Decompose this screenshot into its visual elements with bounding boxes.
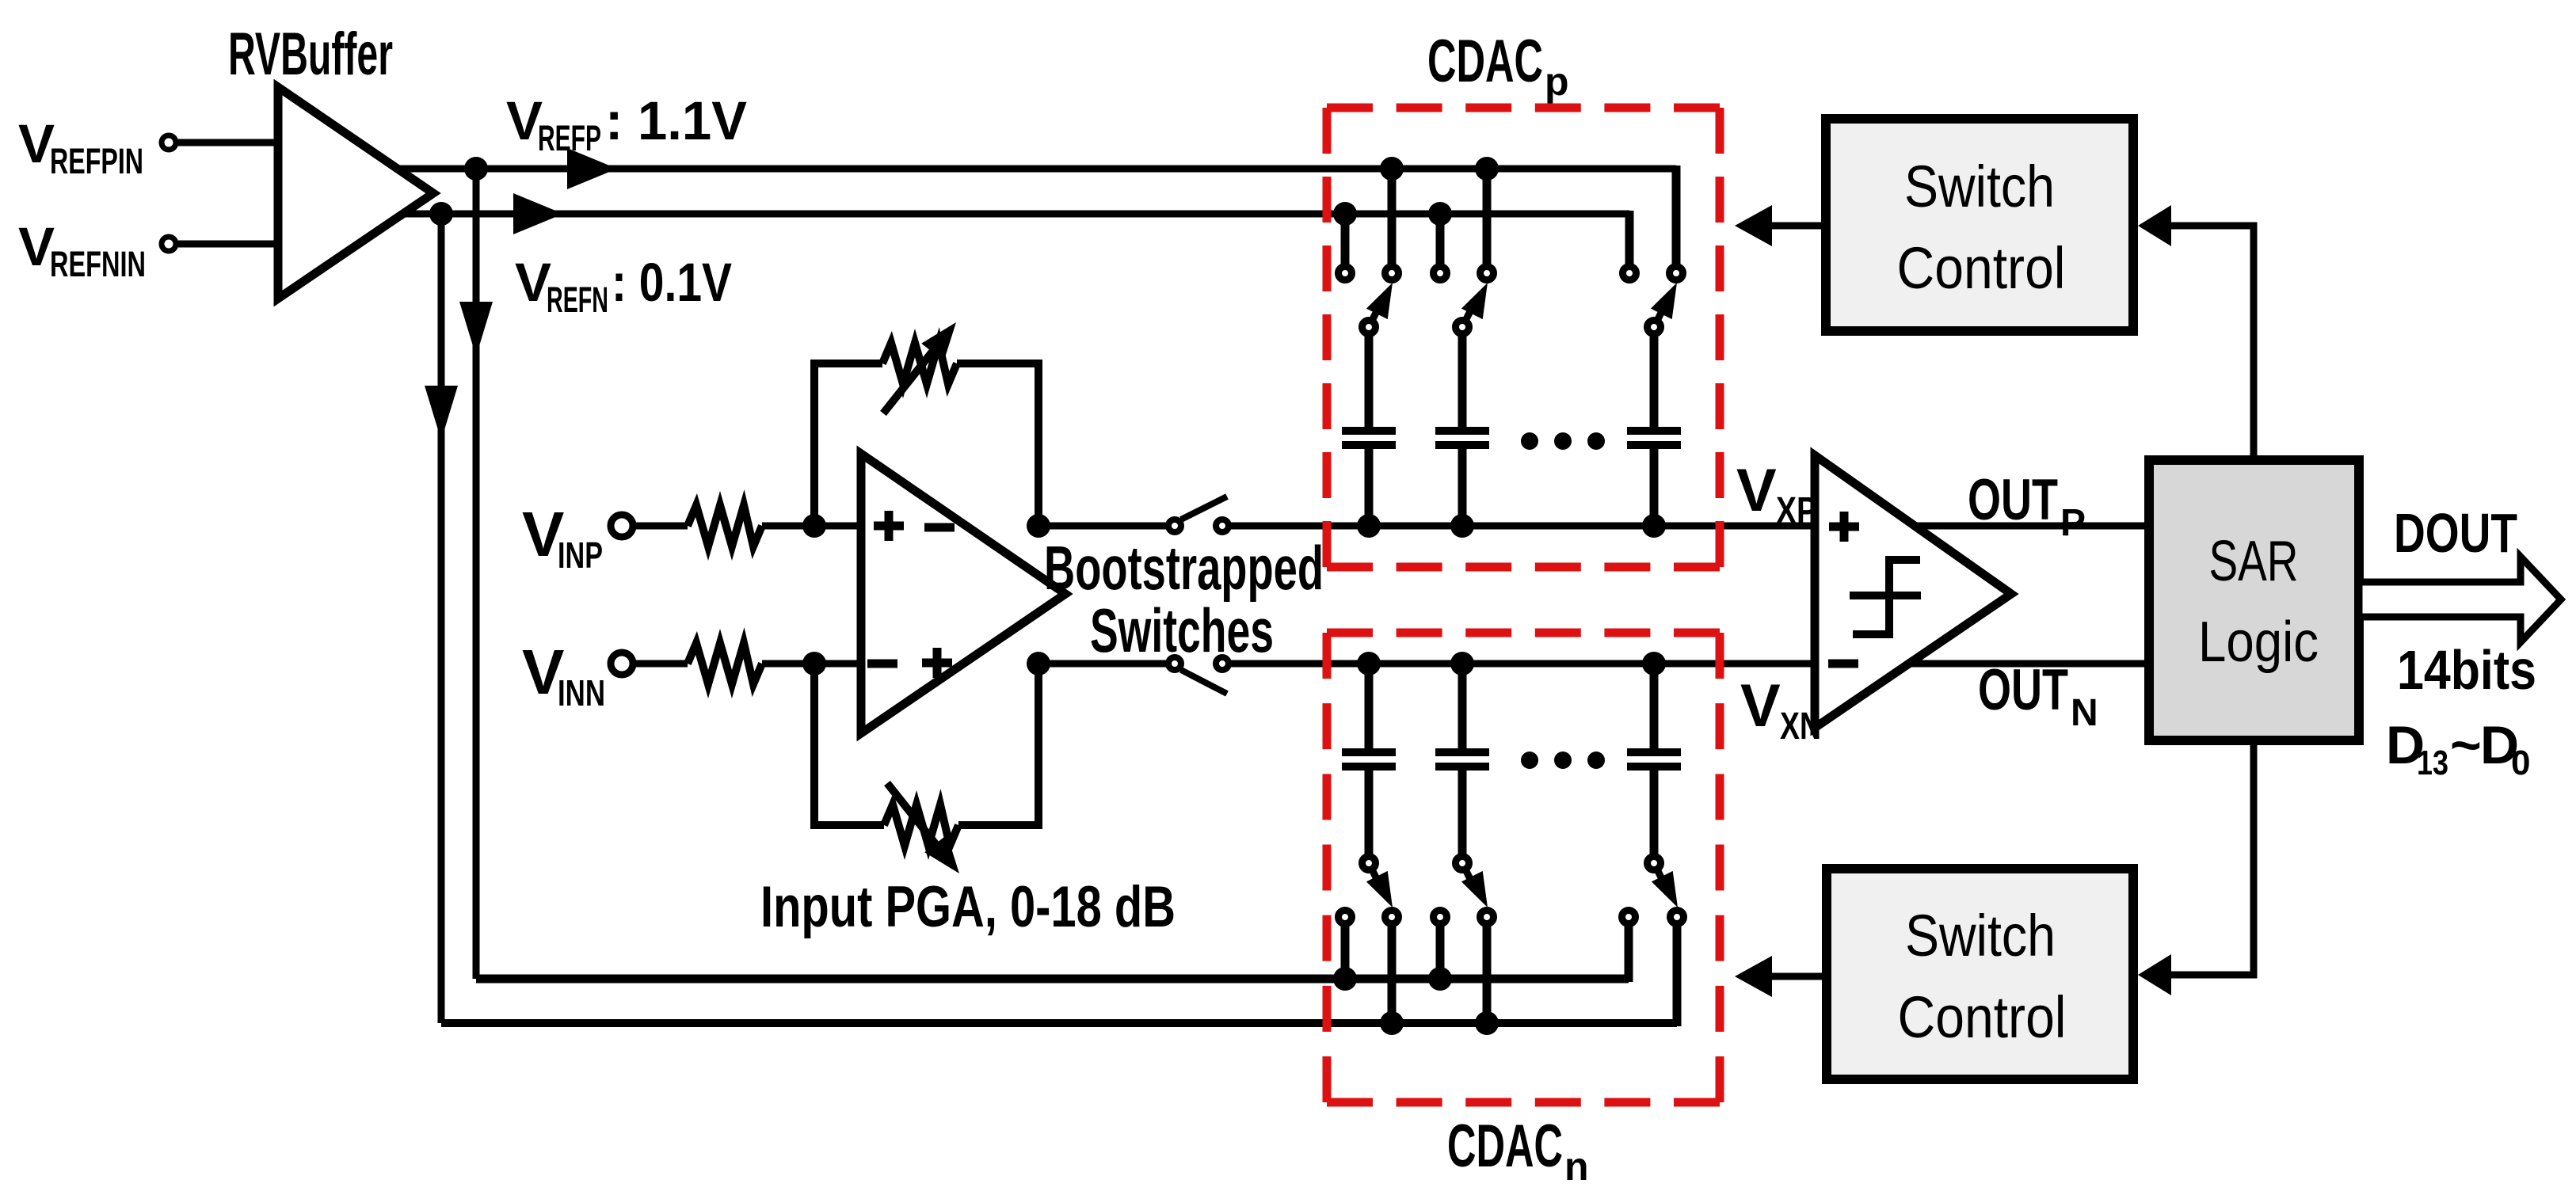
DOUT block arrow — [2359, 557, 2561, 642]
svg-text:OUT: OUT — [1978, 658, 2068, 722]
capacitor C3p — [1650, 337, 1659, 428]
terminal V_REFNIN — [162, 237, 176, 251]
wire VREFN rail top — [403, 211, 1629, 218]
wire VREFN vertical drop — [438, 214, 445, 1023]
node VREFP rail tap 2n — [1428, 967, 1452, 991]
wire PGA feedback top-right — [957, 363, 1038, 526]
wire SAR to bottom Switch Control — [2171, 740, 2254, 975]
svg-text:: 1.1V: : 1.1V — [605, 90, 747, 151]
wire PGA feedback top-left — [814, 363, 882, 526]
svg-text:n: n — [1564, 1144, 1589, 1189]
switch SW3p (CDACp bit 3) — [1625, 211, 1634, 264]
op-amp U2 (Input PGA) triangle — [861, 454, 1065, 733]
resistor R1 (V_INP input) — [688, 505, 762, 546]
svg-text:Control: Control — [1898, 984, 2067, 1050]
comparator hysteresis symbol — [1850, 592, 1921, 599]
wire bottom Switch Control to CDACn — [1772, 973, 1827, 980]
comparator U3 triangle — [1815, 455, 2011, 728]
capacitor C1n — [1365, 664, 1374, 751]
wire V_INN to resistor — [635, 660, 688, 668]
CDACn boundary (red dashed box) — [1327, 629, 1720, 637]
switch S1 (bootstrapped, VXP) — [1168, 519, 1181, 532]
svg-text:INN: INN — [558, 672, 605, 713]
node VXP cap C1p — [1357, 514, 1381, 538]
wire VXN from PGA — [1038, 660, 1166, 668]
svg-text:Switch: Switch — [1905, 903, 2056, 968]
svg-text:V: V — [1736, 457, 1777, 524]
svg-text:OUT: OUT — [1968, 468, 2058, 532]
PGA + sign (top input) — [874, 522, 904, 531]
node VREFN rail tap 2n — [1475, 1011, 1499, 1035]
svg-text:~: ~ — [2450, 715, 2482, 775]
node VREFP cap3 tap — [1475, 157, 1499, 181]
wire VREFP rail top — [398, 166, 1676, 173]
variable resistor R3 (top feedback) — [882, 343, 957, 384]
node VREFN cap1 tap — [1333, 202, 1357, 226]
wire V_INP to resistor — [635, 523, 688, 530]
arrow of variable resistor R4 — [887, 783, 943, 853]
wire PGA feedback bottom-left — [814, 664, 884, 825]
switch SW1p (CDACp bit 1) — [1341, 214, 1350, 264]
wire VREFP bottom rail — [476, 975, 1629, 984]
block SAR Logic box — [2149, 460, 2359, 740]
arrowhead into bottom Switch Control — [2138, 954, 2171, 995]
svg-text:XP: XP — [1776, 490, 1817, 532]
flow arrowhead on VREFP drop — [459, 302, 493, 356]
svg-text:14bits: 14bits — [2397, 639, 2536, 701]
node PGA - input — [802, 652, 826, 675]
PGA + sign (bottom) — [922, 659, 952, 668]
block Switch Control (top) box — [1826, 119, 2133, 331]
arrowhead into CDACp — [1735, 205, 1772, 246]
wire resistor to PGA - — [762, 660, 861, 668]
svg-text:Control: Control — [1897, 235, 2066, 301]
arrowhead into top Switch Control — [2138, 205, 2171, 246]
svg-text:DOUT: DOUT — [2394, 502, 2517, 564]
wire PGA feedback bottom-right — [958, 664, 1038, 825]
node VREFP cap2 tap — [1380, 157, 1404, 181]
svg-text:REFN: REFN — [547, 280, 608, 320]
svg-text:INP: INP — [558, 535, 603, 576]
node PGA output N — [1027, 652, 1050, 675]
switch SW2n (CDACn bit 2) — [1456, 857, 1469, 870]
node VXN cap C3n — [1642, 652, 1666, 675]
ellipsis CDACp (more caps) — [1521, 432, 1538, 450]
svg-text:p: p — [1545, 59, 1569, 104]
flow arrowhead on VREFP — [567, 148, 617, 189]
comparator - sign — [1828, 660, 1858, 668]
switch SW3n (CDACn bit 3) — [1648, 857, 1661, 870]
svg-text:: 0.1V: : 0.1V — [612, 252, 732, 313]
wire VXN to CDACn — [1231, 660, 1815, 668]
svg-text:0: 0 — [2511, 744, 2530, 782]
svg-text:P: P — [2060, 502, 2086, 544]
wire V_REFPIN to buffer — [178, 139, 278, 146]
buffer U1 (RVBuffer) triangle — [278, 87, 433, 299]
node VXN cap C1n — [1357, 652, 1381, 675]
wire SAR to top Switch Control — [2171, 226, 2254, 460]
capacitor C2n — [1458, 664, 1467, 751]
svg-text:Switch: Switch — [1904, 154, 2055, 219]
svg-text:Logic: Logic — [2198, 611, 2319, 674]
node PGA output P — [1027, 514, 1050, 538]
block Switch Control (bottom) box — [1827, 869, 2133, 1079]
PGA - sign (bottom input) — [867, 660, 897, 668]
switch SW1n (CDACn bit 1) — [1362, 857, 1376, 870]
switch S2 (bootstrapped, VXN) — [1168, 657, 1181, 670]
ellipsis CDACn (more caps) — [1521, 752, 1538, 769]
node VXP cap C2p — [1450, 514, 1474, 538]
wire resistor to PGA + — [762, 523, 861, 530]
switch SW2p (CDACp bit 2) — [1436, 214, 1445, 264]
wire VREFN bottom rail — [441, 1019, 1677, 1027]
node VREFN at buffer output — [429, 202, 453, 226]
capacitor C1p — [1365, 337, 1374, 428]
svg-text:V: V — [1740, 672, 1781, 740]
arrowhead into CDACn — [1735, 956, 1772, 997]
terminal V_INP — [611, 515, 633, 537]
wire VXP from PGA — [1038, 523, 1166, 530]
svg-text:SAR: SAR — [2209, 530, 2299, 593]
node VXP cap C3p — [1642, 514, 1666, 538]
wire OUT_P — [1915, 523, 2149, 530]
wire OUT_N — [1909, 660, 2149, 668]
PGA - sign (top) — [924, 523, 955, 532]
node VREFN rail tap 1n — [1380, 1011, 1404, 1035]
node VREFN cap2 tap — [1428, 202, 1452, 226]
wire top Switch Control to CDACp — [1772, 223, 1826, 230]
CDACp boundary (red dashed box) — [1327, 104, 1720, 112]
arrow of variable resistor R3 — [883, 344, 939, 413]
svg-text:XN: XN — [1780, 706, 1821, 748]
svg-text:CDAC: CDAC — [1447, 1113, 1563, 1180]
flow arrowhead on VREFN — [513, 193, 563, 234]
variable resistor R4 (bottom feedback) — [884, 805, 958, 846]
terminal V_REFPIN — [162, 135, 176, 150]
svg-text:Bootstrapped: Bootstrapped — [1044, 533, 1324, 603]
svg-text:REFNIN: REFNIN — [50, 244, 146, 284]
terminal V_INN — [611, 653, 633, 675]
node VREFP at buffer output — [464, 157, 488, 181]
node VREFP rail tap 1n — [1333, 967, 1357, 991]
wire VXP to CDACp — [1231, 523, 1815, 530]
svg-text:13: 13 — [2417, 744, 2448, 782]
comparator + sign — [1829, 523, 1859, 531]
svg-text:Input PGA, 0-18 dB: Input PGA, 0-18 dB — [760, 875, 1176, 939]
node PGA + input — [802, 514, 826, 538]
flow arrowhead on VREFN drop — [425, 386, 458, 440]
capacitor C2p — [1458, 337, 1467, 428]
wire VREFP vertical drop — [473, 169, 480, 979]
node VXN cap C2n — [1450, 652, 1474, 675]
resistor R2 (V_INN input) — [688, 643, 762, 684]
svg-text:RVBuffer: RVBuffer — [228, 21, 393, 88]
svg-text:N: N — [2071, 692, 2098, 734]
svg-text:REFP: REFP — [538, 118, 601, 158]
capacitor C3n — [1650, 664, 1659, 751]
wire V_REFNIN to buffer — [178, 241, 278, 248]
svg-text:Switches: Switches — [1090, 595, 1274, 665]
svg-text:REFPIN: REFPIN — [50, 141, 143, 181]
svg-text:CDAC: CDAC — [1427, 28, 1543, 95]
